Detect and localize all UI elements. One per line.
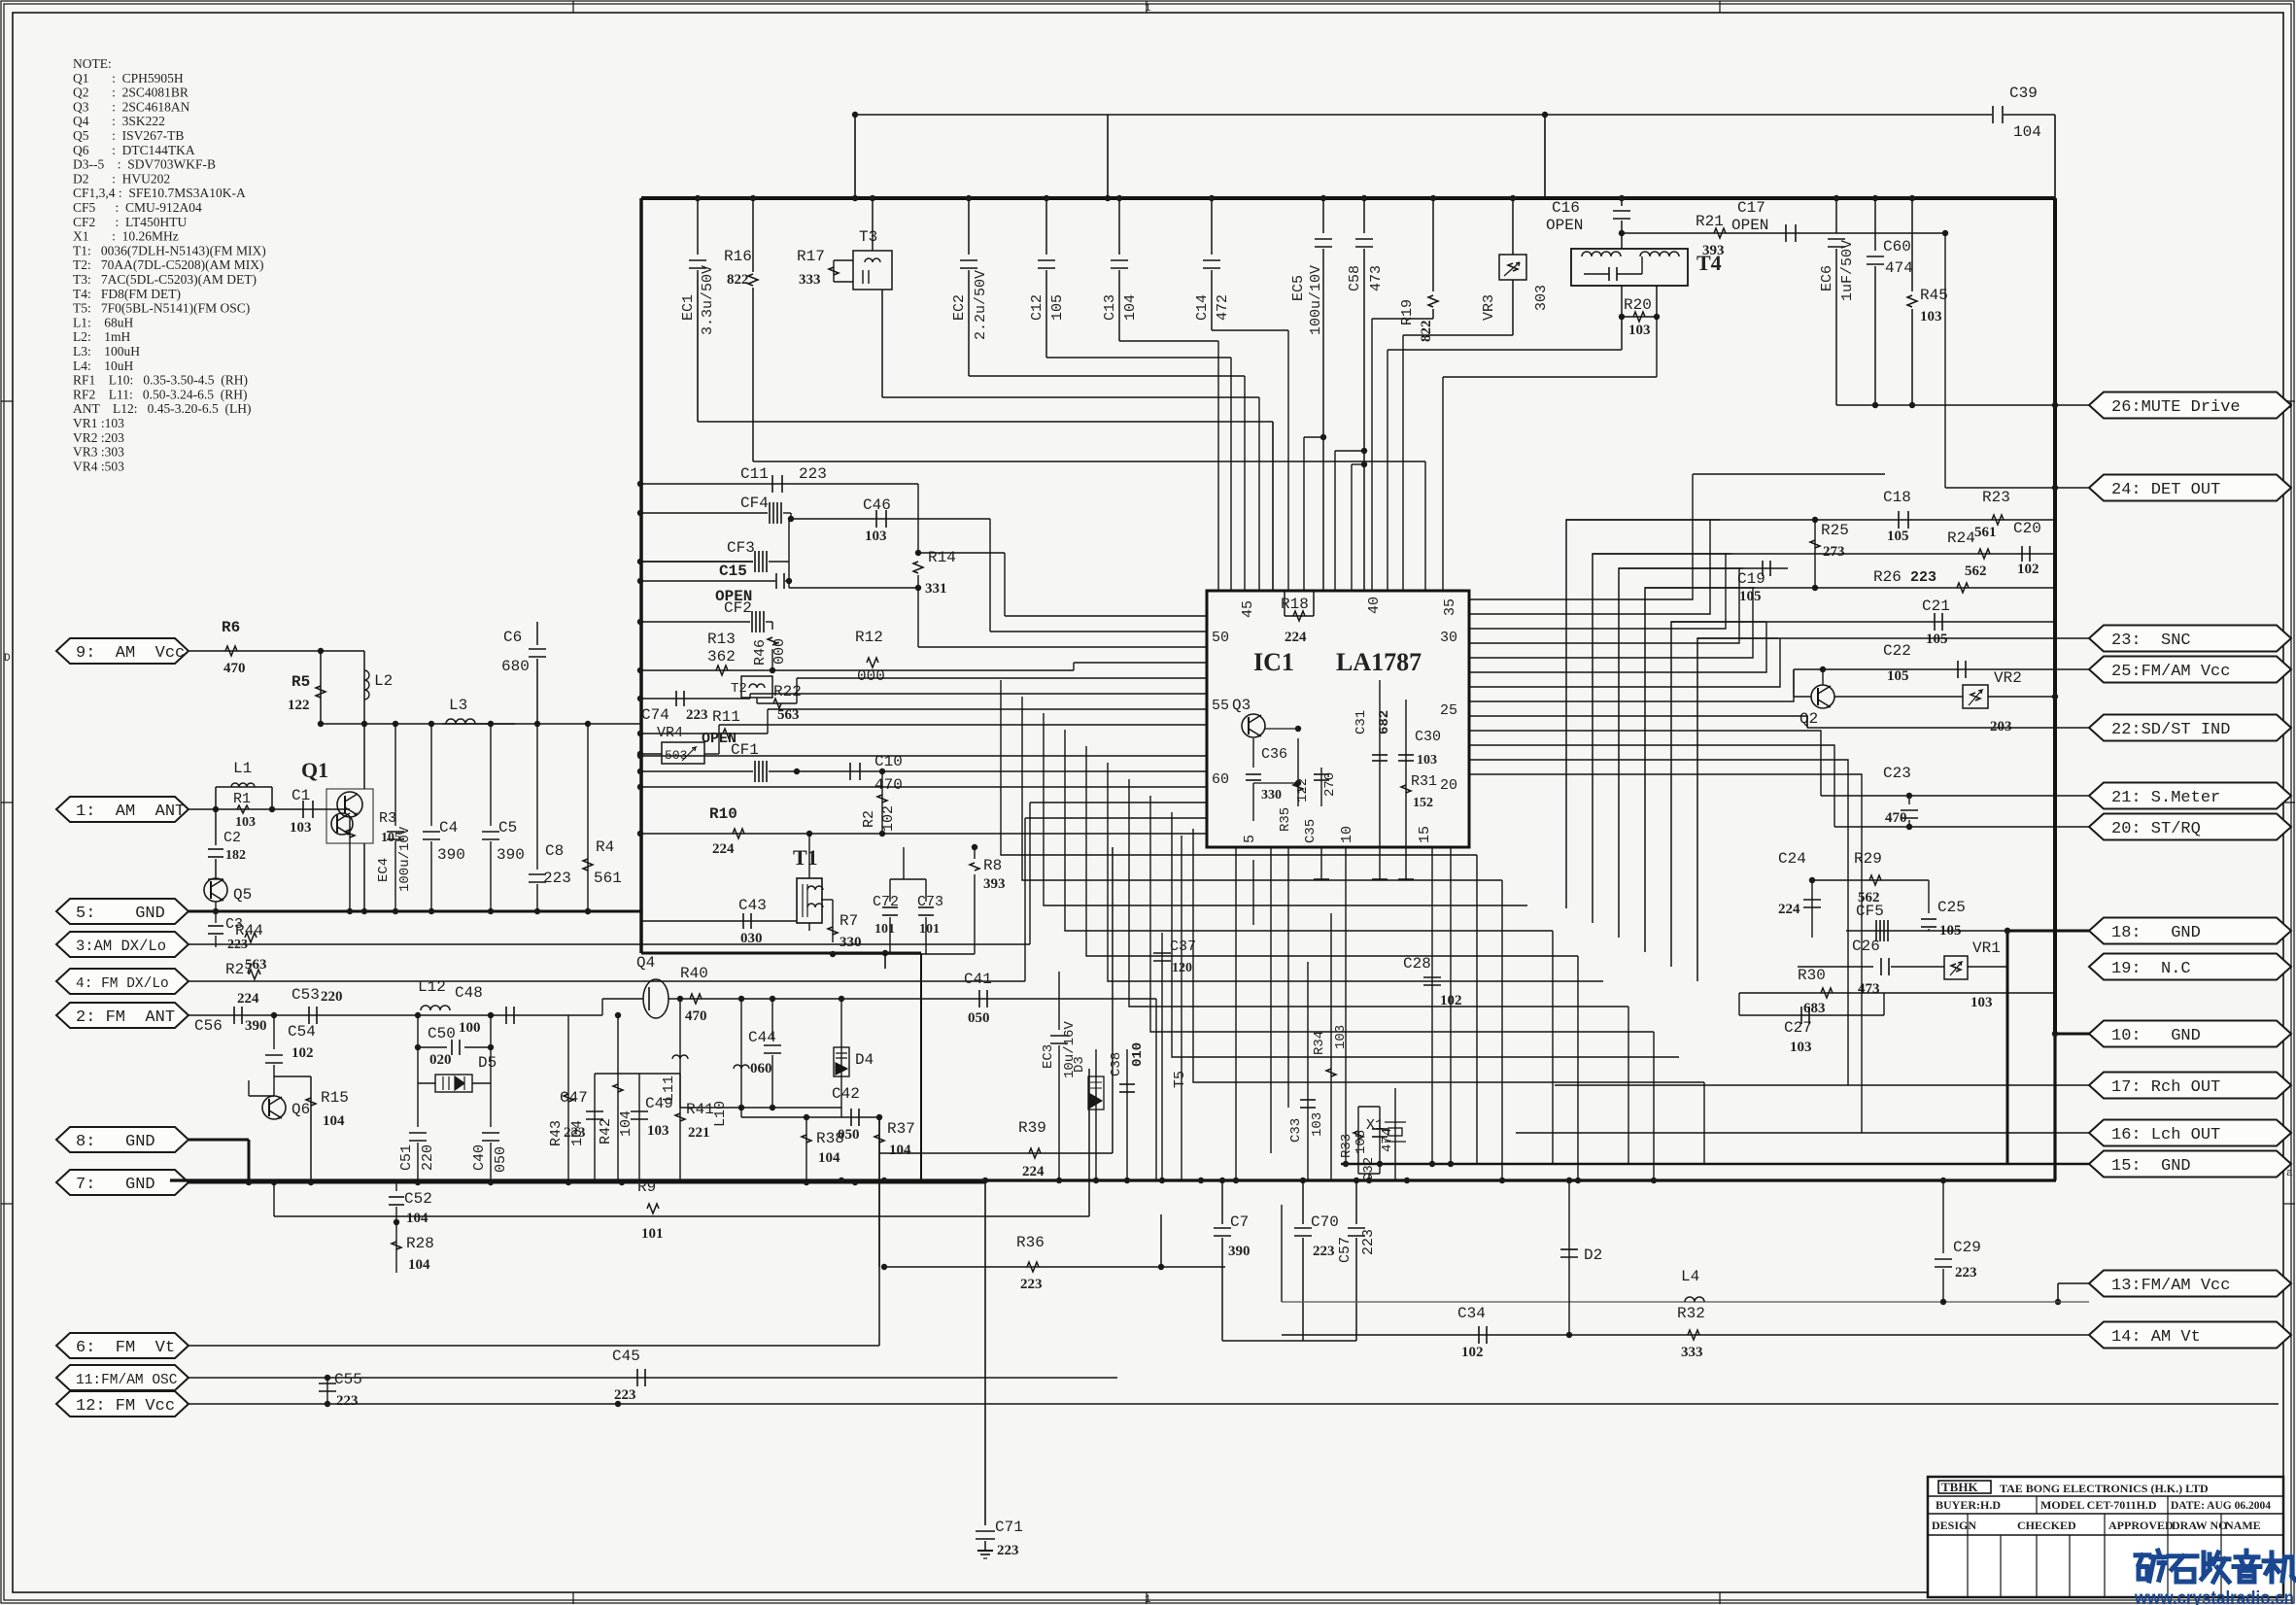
svg-text:223: 223 [564, 1125, 586, 1141]
wire c21 row [1671, 621, 2055, 623]
svg-text:390: 390 [497, 846, 525, 864]
svg-text:L12: L12 [418, 978, 446, 996]
capacitor C28 [1423, 976, 1441, 978]
svg-text:C55: C55 [334, 1371, 362, 1388]
svg-text:T3: T3 [859, 228, 877, 246]
svg-text:220: 220 [321, 989, 343, 1005]
svg-text:R40: R40 [680, 965, 708, 982]
flag 22 SD/ST IND [2089, 715, 2291, 741]
capacitor C45 [636, 1369, 638, 1386]
svg-text:T5: T5 [1172, 1071, 1188, 1088]
capacitor C51 [417, 1083, 419, 1127]
svg-text:C28: C28 [1403, 955, 1431, 973]
capacitor C11 [771, 475, 773, 493]
ceramic filter CF3 [640, 561, 753, 563]
svg-text:C30: C30 [1415, 729, 1441, 745]
svg-text:CF5 : CMU-912A04: CF5 : CMU-912A04 [73, 200, 202, 215]
wire fm tank rows [680, 1107, 841, 1109]
svg-text:050: 050 [968, 1010, 990, 1026]
wire bottom caps to row [1222, 1340, 1356, 1342]
potentiometer VR4 [640, 753, 662, 755]
transistor Q5 [204, 878, 227, 902]
capacitor C26 [1798, 966, 1873, 968]
svg-text:C15: C15 [719, 563, 747, 580]
svg-text:R4: R4 [596, 838, 614, 856]
svg-text:104: 104 [1122, 294, 1139, 321]
svg-text:R26: R26 [1873, 568, 1902, 586]
svg-text:L3: L3 [449, 697, 467, 714]
svg-text:C56: C56 [194, 1017, 223, 1035]
svg-text:103: 103 [1310, 1112, 1325, 1137]
resistor R2 [881, 771, 883, 816]
capacitor C4 [430, 724, 432, 826]
capacitor C42 [741, 1116, 879, 1118]
svg-text:Q3: Q3 [1232, 697, 1251, 714]
svg-text:VR2: VR2 [1994, 669, 2022, 687]
svg-text:CHECKED: CHECKED [2017, 1519, 2076, 1532]
capacitor C21 [1934, 613, 1936, 631]
logo TBHK [1938, 1481, 1991, 1493]
svg-text:C21: C21 [1922, 598, 1950, 615]
inductor L4 [1282, 1301, 2089, 1303]
flag 4 FM DX/Lo [56, 969, 188, 994]
svg-text:Q4: Q4 [636, 954, 655, 972]
svg-text:L4: 10uH: L4: 10uH [73, 359, 133, 373]
svg-text:VR4 :503: VR4 :503 [73, 459, 124, 473]
resistor R35 [1297, 738, 1299, 806]
svg-text:103: 103 [1920, 309, 1942, 324]
svg-text:Q1: Q1 [301, 758, 328, 782]
svg-text:122: 122 [1295, 778, 1311, 802]
capacitor C50 [417, 1015, 419, 1047]
capacitor C58 [1363, 198, 1365, 233]
svg-text:562: 562 [1965, 563, 1987, 579]
svg-text:L2: 1mH: L2: 1mH [73, 329, 130, 344]
svg-text:100: 100 [459, 1020, 481, 1036]
wire row C11 [640, 483, 918, 485]
wire r26 row [1645, 587, 2055, 589]
svg-text:C71: C71 [995, 1519, 1023, 1536]
svg-text:333: 333 [799, 272, 821, 288]
svg-text:C16: C16 [1552, 199, 1580, 217]
capacitor C33 R34 [1307, 962, 1309, 1180]
diode D2 [1568, 1180, 1570, 1335]
diode D5 [417, 1047, 419, 1083]
resistor R28 [395, 1222, 397, 1273]
svg-text:1: 1 [1145, 1594, 1151, 1605]
resistor R3 [340, 808, 350, 810]
capacitor C70 [1302, 1180, 1304, 1224]
svg-text:104: 104 [2013, 123, 2041, 141]
svg-text:R3: R3 [379, 810, 396, 827]
svg-text:10: 10 [1339, 826, 1355, 843]
svg-text:CF2: CF2 [724, 599, 752, 617]
capacitor C44 [771, 999, 773, 1040]
flag 12 FM Vcc [56, 1391, 188, 1417]
svg-text:104: 104 [406, 1211, 428, 1226]
svg-text:R28: R28 [406, 1235, 434, 1252]
svg-text:223: 223 [997, 1543, 1019, 1558]
flag 18 GND [2089, 918, 2291, 944]
capacitor C40 [490, 1083, 492, 1127]
svg-text:020: 020 [429, 1052, 452, 1068]
svg-text:C1: C1 [291, 787, 310, 804]
svg-text:T5: 7F0(5BL-N5141)(FM OSC): T5: 7F0(5BL-N5141)(FM OSC) [73, 301, 250, 316]
svg-text:NOTE:: NOTE: [73, 56, 112, 71]
resistor R21 [1622, 232, 1945, 234]
svg-text:Q2: Q2 [1799, 710, 1818, 728]
svg-text:050: 050 [493, 1146, 509, 1173]
capacitor C52 [395, 1182, 397, 1191]
wire c18 row [1566, 519, 2055, 521]
svg-text:104: 104 [889, 1143, 911, 1158]
wire r24 c20 row [1593, 553, 2055, 555]
svg-text:Q4 : 3SK222: Q4 : 3SK222 [73, 114, 165, 128]
flag 20 ST/RQ [2089, 814, 2291, 840]
svg-text:101: 101 [919, 922, 940, 937]
svg-text:203: 203 [1990, 719, 2012, 734]
svg-text:T1: 0036(7DLH-N5143)(FM MIX): T1: 0036(7DLH-N5143)(FM MIX) [73, 243, 266, 257]
svg-text:C26: C26 [1852, 938, 1880, 955]
flag 3 AM DX/Lo [56, 932, 188, 957]
svg-text:21: S.Meter: 21: S.Meter [2111, 789, 2220, 807]
svg-text:55: 55 [1212, 698, 1229, 714]
svg-text:224: 224 [1285, 630, 1307, 645]
svg-text:1: AM ANT: 1: AM ANT [76, 802, 185, 821]
filter CF5 [1846, 930, 2007, 932]
svg-text:223: 223 [614, 1387, 636, 1403]
svg-text:R16: R16 [724, 248, 752, 265]
svg-text:R13: R13 [707, 631, 736, 648]
flag 7 GND [56, 1170, 188, 1195]
svg-text:25: 25 [1440, 702, 1457, 719]
thick vertical right bus [2053, 198, 2057, 1034]
resistor R14 [915, 550, 921, 556]
svg-text:10: GND: 10: GND [2111, 1027, 2201, 1045]
capacitor C41 [978, 990, 980, 1007]
capacitor EC6 [1835, 198, 1837, 233]
svg-text:682: 682 [1377, 710, 1392, 734]
resistor R7 [832, 923, 834, 942]
wire bundle ic right [1469, 474, 1693, 599]
svg-text:C39: C39 [2009, 85, 2038, 102]
svg-text:330: 330 [840, 935, 862, 950]
svg-text:104: 104 [618, 1110, 634, 1137]
svg-text:103: 103 [235, 815, 256, 830]
ic bottom pin drops [1235, 847, 1237, 1180]
potentiometer VR3 [1512, 198, 1514, 255]
flag 15 GND [2089, 1151, 2291, 1178]
diode D4 [840, 999, 842, 1117]
resistor R19 [1432, 198, 1434, 291]
wire bundle top left staircase [1217, 341, 1219, 591]
svg-text:TBHK: TBHK [1941, 1480, 1978, 1494]
svg-text:DRAW NO: DRAW NO [2172, 1519, 2227, 1532]
flag 2 FM ANT [56, 1003, 188, 1028]
svg-text:RF2 L11: 0.50-3.24-6.5 (: RF2 L11: 0.50-3.24-6.5 (RH) [73, 387, 248, 401]
svg-text:VR4: VR4 [657, 725, 683, 741]
svg-text:C74: C74 [641, 706, 669, 724]
svg-text:470: 470 [874, 776, 903, 794]
svg-text:L2: L2 [374, 672, 393, 690]
svg-text:2: FM ANT: 2: FM ANT [76, 1008, 175, 1027]
svg-text:060: 060 [750, 1061, 772, 1076]
capacitor C15 [640, 580, 775, 582]
svg-text:561: 561 [1974, 525, 1997, 540]
capacitor C27 [1739, 1014, 1884, 1016]
capacitor C13 [1118, 198, 1120, 255]
svg-text:R45: R45 [1920, 287, 1948, 304]
svg-text:EC6: EC6 [1819, 265, 1835, 291]
svg-text:C49: C49 [645, 1095, 673, 1112]
svg-text:DESIGN: DESIGN [1932, 1519, 1976, 1532]
flag 10 GND [2089, 1021, 2291, 1047]
svg-text:C42: C42 [832, 1085, 860, 1103]
flag 17 Rch OUT [2089, 1073, 2291, 1099]
flag 26 MUTE Drive [2089, 393, 2291, 419]
svg-text:R21: R21 [1696, 213, 1724, 230]
svg-text:R5: R5 [291, 673, 310, 691]
svg-text:C11: C11 [740, 465, 769, 483]
svg-text:101: 101 [641, 1226, 664, 1242]
svg-text:OPEN: OPEN [1731, 217, 1768, 234]
capacitor C2 [215, 809, 217, 845]
svg-text:680: 680 [501, 658, 530, 675]
resistor R24 [1978, 549, 1990, 559]
svg-text:102: 102 [1440, 993, 1462, 1008]
ceramic filter CF1 [640, 770, 753, 772]
wire ec1 elbow [697, 280, 699, 422]
svg-text:D2: D2 [1584, 1246, 1602, 1264]
svg-text:CF5: CF5 [1856, 903, 1884, 920]
resistor R38 [805, 1117, 807, 1182]
svg-text:T1: T1 [793, 845, 818, 870]
svg-text:Q6: Q6 [291, 1101, 310, 1118]
svg-text:24: DET OUT: 24: DET OUT [2111, 481, 2220, 499]
svg-text:C8: C8 [545, 842, 564, 860]
svg-text:22:SD/ST IND: 22:SD/ST IND [2111, 721, 2230, 739]
capacitor C20 [2021, 546, 2023, 562]
capacitor C54 [273, 1015, 275, 1049]
svg-text:103: 103 [1333, 1025, 1349, 1049]
svg-text:362: 362 [707, 648, 736, 666]
wire main gnd bus bottom [170, 1178, 2056, 1181]
svg-text:103: 103 [1970, 995, 1993, 1010]
svg-text:1: 1 [1145, 3, 1151, 15]
capacitor C19 [1619, 567, 1788, 569]
capacitor C48 [505, 1007, 507, 1024]
capacitor C7 [1221, 1180, 1223, 1224]
wire r36 row [884, 1266, 1225, 1268]
capacitor C46 [791, 518, 990, 520]
wire gnd18 [2007, 930, 2089, 933]
svg-text:DATE: AUG 06.2004: DATE: AUG 06.2004 [2171, 1500, 2271, 1512]
svg-text:CF1,3,4 : SFE10.7MS3A10K-A: CF1,3,4 : SFE10.7MS3A10K-A [73, 186, 246, 200]
capacitor C73 [925, 879, 927, 902]
transistor Q3 [1242, 714, 1265, 737]
svg-text:C37: C37 [1170, 939, 1196, 955]
resistor R25 [1812, 517, 1818, 523]
capacitor C60 [1874, 198, 1876, 251]
resistor R41 [679, 1074, 681, 1182]
svg-text:35: 35 [1442, 598, 1458, 616]
svg-text:BUYER:H.D: BUYER:H.D [1936, 1498, 2001, 1512]
resistor R33 C32 [1357, 1107, 1359, 1174]
svg-text:LA1787: LA1787 [1336, 648, 1422, 676]
svg-text:303: 303 [1533, 285, 1550, 311]
svg-text:X1 : 10.26MHz: X1 : 10.26MHz [73, 229, 179, 244]
svg-text:APPROVED: APPROVED [2108, 1519, 2174, 1532]
svg-text:11:FM/AM OSC: 11:FM/AM OSC [76, 1373, 178, 1388]
svg-text:C53: C53 [291, 986, 320, 1004]
top power bus wire [641, 196, 2055, 200]
resistor R22 [757, 702, 797, 704]
capacitor C8 [536, 724, 538, 870]
resistor R13 row [640, 669, 772, 671]
svg-text:102: 102 [291, 1045, 314, 1061]
svg-text:122: 122 [288, 698, 310, 713]
svg-text:105: 105 [1049, 294, 1066, 321]
svg-text:R44: R44 [235, 922, 263, 939]
svg-text:C18: C18 [1883, 489, 1911, 506]
svg-text:L3: 100uH: L3: 100uH [73, 344, 140, 359]
svg-text:60: 60 [1212, 771, 1229, 788]
svg-text:C22: C22 [1883, 642, 1911, 660]
svg-text:EC2: EC2 [951, 294, 968, 321]
svg-text:C7: C7 [1230, 1213, 1249, 1231]
svg-text:390: 390 [245, 1018, 267, 1034]
svg-text:D4: D4 [855, 1051, 874, 1069]
crystal X1 [1394, 1088, 1396, 1180]
svg-text:R46: R46 [752, 639, 769, 666]
svg-text:Q6 : DTC144TKA: Q6 : DTC144TKA [73, 143, 195, 157]
svg-text:C27: C27 [1784, 1019, 1812, 1037]
resistor R43 [567, 1015, 569, 1182]
svg-text:45: 45 [1240, 600, 1256, 618]
svg-text:331: 331 [925, 581, 947, 597]
svg-text:3.3u/50V: 3.3u/50V [700, 265, 716, 335]
wire r39 row [878, 1117, 880, 1346]
svg-text:D2 : HVU202: D2 : HVU202 [73, 171, 170, 186]
svg-text:104: 104 [323, 1113, 345, 1129]
svg-text:5: GND: 5: GND [76, 905, 165, 923]
svg-text:R35: R35 [1278, 807, 1293, 832]
svg-text:R18: R18 [1281, 596, 1309, 613]
svg-text:C70: C70 [1311, 1213, 1339, 1231]
svg-text:224: 224 [712, 841, 735, 857]
svg-text:VR2 :203: VR2 :203 [73, 430, 124, 445]
svg-text:822: 822 [1419, 321, 1434, 343]
svg-text:TAE BONG ELECTRONICS (H.K.) LT: TAE BONG ELECTRONICS (H.K.) LTD [2000, 1482, 2209, 1495]
svg-text:102: 102 [2017, 562, 2039, 577]
svg-text:R14: R14 [928, 549, 956, 566]
transistor T3 detector [853, 251, 892, 290]
svg-text:VR3: VR3 [1481, 294, 1497, 321]
svg-text:C38: C38 [1109, 1052, 1124, 1076]
svg-text:D3: D3 [1072, 1056, 1087, 1073]
svg-text:R38: R38 [816, 1130, 844, 1147]
svg-text:C57: C57 [1337, 1237, 1354, 1263]
svg-text:393: 393 [983, 876, 1006, 892]
svg-text:C29: C29 [1953, 1239, 1981, 1256]
svg-text:C17: C17 [1737, 199, 1765, 217]
ceramic filter CF4 [640, 512, 768, 514]
svg-text:C12: C12 [1029, 294, 1045, 321]
svg-text:C2: C2 [223, 830, 241, 846]
svg-text:15: 15 [1417, 826, 1433, 843]
svg-text:R36: R36 [1016, 1234, 1045, 1251]
svg-text:103: 103 [865, 529, 887, 544]
svg-text:EC4: EC4 [376, 858, 392, 882]
svg-text:470: 470 [223, 661, 246, 676]
svg-text:L1: L1 [233, 760, 252, 777]
capacitor C43 [640, 920, 797, 922]
capacitor C36 [1252, 738, 1254, 768]
svg-text:R12: R12 [855, 629, 883, 646]
svg-text:C36: C36 [1261, 746, 1287, 763]
wire bottom of t1 cluster [808, 923, 810, 931]
resistor R18 [1284, 591, 1285, 616]
transistor Q2 [1811, 685, 1834, 708]
svg-text:EC5: EC5 [1290, 275, 1307, 301]
potentiometer VR2 [1963, 685, 1988, 708]
svg-text:R20: R20 [1624, 296, 1652, 314]
svg-text:VR1: VR1 [1972, 939, 2001, 957]
resistor R31 [1401, 785, 1411, 793]
svg-text:23: SNC: 23: SNC [2111, 632, 2191, 650]
capacitor C17 [1785, 224, 1787, 242]
svg-text:010: 010 [1130, 1042, 1146, 1067]
svg-text:C40: C40 [471, 1144, 488, 1171]
svg-text:25:FM/AM Vcc: 25:FM/AM Vcc [2111, 663, 2230, 681]
inductor L3 [442, 723, 641, 725]
capacitor EC2 [968, 198, 970, 255]
capacitor C57 [1355, 1180, 1357, 1224]
svg-text:20: ST/RQ: 20: ST/RQ [2111, 820, 2201, 838]
flag 13 FM/AM Vcc [2089, 1271, 2291, 1297]
svg-text:a: a [2286, 1168, 2293, 1179]
svg-text:R23: R23 [1982, 489, 2010, 506]
resistor R17 [834, 259, 853, 261]
svg-text:104: 104 [818, 1150, 840, 1166]
capacitor C1 [272, 808, 340, 810]
capacitor C39 [1992, 106, 1994, 123]
inductor L2 [363, 651, 365, 724]
svg-text:12: FM Vcc: 12: FM Vcc [76, 1397, 175, 1416]
wire gnd bus [188, 910, 641, 913]
svg-text:C14: C14 [1194, 294, 1211, 321]
svg-text:273: 273 [1823, 544, 1845, 560]
svg-text:C52: C52 [404, 1190, 432, 1208]
svg-text:5: 5 [1242, 835, 1258, 843]
svg-text:30: 30 [1440, 630, 1457, 646]
capacitor C34 [1282, 1334, 2089, 1336]
svg-text:C20: C20 [2013, 520, 2041, 537]
resistor R6 [188, 650, 321, 652]
svg-text:100u/10V: 100u/10V [1308, 265, 1324, 335]
resistor R36 [1027, 1262, 1039, 1272]
svg-text:9: AM Vcc: 9: AM Vcc [76, 644, 185, 663]
inductor L1 [188, 808, 216, 810]
svg-text:C13: C13 [1102, 294, 1118, 321]
svg-text:18: GND: 18: GND [2111, 924, 2201, 942]
svg-text:8: GND: 8: GND [76, 1133, 155, 1151]
resistor R40 [668, 998, 1156, 1000]
wire mute row [1836, 404, 2089, 406]
svg-text:R25: R25 [1821, 522, 1849, 539]
svg-text:C72: C72 [873, 894, 899, 910]
resistor R44 [188, 943, 1030, 945]
